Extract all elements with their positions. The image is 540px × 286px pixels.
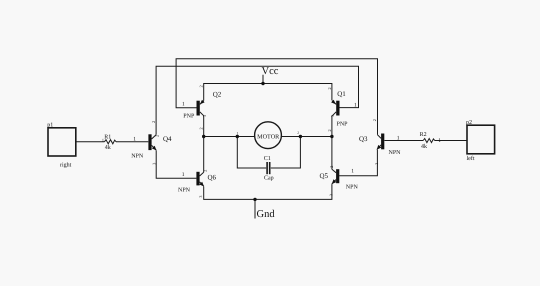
wire Gnd stub <box>254 199 256 218</box>
svg-text:2: 2 <box>198 85 203 87</box>
svg-text:R2: R2 <box>420 132 427 138</box>
svg-text:right: right <box>60 161 72 168</box>
svg-text:2: 2 <box>327 87 332 89</box>
svg-text:Cap: Cap <box>264 176 274 182</box>
port p2 box <box>467 125 495 154</box>
junction dot cap left tap <box>236 135 239 138</box>
svg-text:PNP: PNP <box>183 114 195 120</box>
transistor Q2 (PNP) <box>197 100 205 116</box>
wire Vcc rail <box>204 84 332 101</box>
svg-text:NPN: NPN <box>389 150 402 156</box>
svg-text:left: left <box>467 155 475 162</box>
transistor Q1 (PNP) <box>331 100 339 116</box>
svg-text:Q4: Q4 <box>163 135 172 143</box>
svg-text:Q1: Q1 <box>337 90 346 98</box>
wire Q4 emitter to Q6 base <box>156 151 196 179</box>
svg-text:Gnd: Gnd <box>257 209 276 220</box>
svg-text:Q2: Q2 <box>213 91 222 99</box>
capacitor C1 plates <box>267 162 270 174</box>
resistor R2 <box>423 139 435 143</box>
port p1 box <box>48 128 76 156</box>
motor M1 circle <box>255 122 282 149</box>
wire Vcc stub <box>262 75 264 84</box>
svg-text:2: 2 <box>297 131 299 135</box>
svg-text:2: 2 <box>198 127 203 129</box>
svg-text:Vcc: Vcc <box>262 66 279 77</box>
svg-text:4k: 4k <box>421 143 427 150</box>
wire R2 to p2 <box>435 140 467 142</box>
svg-text:2: 2 <box>151 121 156 123</box>
svg-text:3: 3 <box>198 196 203 198</box>
svg-text:3: 3 <box>152 163 157 165</box>
svg-text:R1: R1 <box>104 135 111 141</box>
svg-text:3: 3 <box>329 194 334 196</box>
wire loop B: Q4 collector to Q1 base <box>156 66 358 135</box>
svg-text:2: 2 <box>372 119 377 121</box>
svg-text:PNP: PNP <box>337 122 349 128</box>
svg-text:Q3: Q3 <box>359 135 368 143</box>
junction dot motor line / Q2-Q6 <box>202 135 205 138</box>
svg-text:2: 2 <box>327 129 332 131</box>
svg-text:1: 1 <box>354 103 357 109</box>
transistor Q5 (NPN) <box>332 169 340 184</box>
resistor R1 <box>105 140 117 144</box>
svg-text:3: 3 <box>330 115 335 117</box>
svg-text:3: 3 <box>202 115 207 117</box>
transistor Q3 (NPN) <box>377 134 385 150</box>
wire Q6 collector riser <box>203 137 205 173</box>
svg-text:1: 1 <box>351 169 354 175</box>
wire R1 to Q4 base <box>116 141 148 143</box>
svg-text:2: 2 <box>329 166 334 168</box>
svg-text:2: 2 <box>155 135 160 137</box>
svg-text:Q5: Q5 <box>320 172 329 180</box>
svg-text:1: 1 <box>397 135 400 141</box>
wire Gnd rail <box>204 184 332 199</box>
svg-text:4k: 4k <box>105 144 111 151</box>
svg-text:1: 1 <box>133 136 136 142</box>
junction dot Vcc <box>261 82 264 85</box>
wire Q5 collector riser <box>331 137 333 170</box>
svg-text:1: 1 <box>182 101 185 107</box>
svg-text:NPN: NPN <box>131 153 144 159</box>
junction dot motor line / Q1-Q5 <box>330 135 333 138</box>
wire capacitor left branch <box>237 137 266 169</box>
wire loop A: Q2 base to Q3 collector <box>176 59 377 135</box>
wire p1 to R1 <box>76 141 105 143</box>
junction dot Gnd <box>253 198 256 201</box>
svg-text:p2: p2 <box>466 120 472 126</box>
svg-text:3: 3 <box>374 163 379 165</box>
svg-text:1: 1 <box>102 137 104 142</box>
svg-text:MOTOR: MOTOR <box>257 133 280 140</box>
svg-text:1: 1 <box>237 132 239 136</box>
svg-text:C1: C1 <box>264 156 271 162</box>
wire Q3 emitter to Q5 base <box>339 150 377 176</box>
transistor Q4 (NPN) <box>148 134 156 150</box>
wire motor line right <box>282 116 332 137</box>
junction dot cap right tap <box>299 135 302 138</box>
wire capacitor right branch <box>271 137 301 169</box>
svg-text:2: 2 <box>202 170 207 172</box>
svg-text:NPN: NPN <box>346 184 359 190</box>
wire motor line left <box>204 116 255 137</box>
svg-text:1: 1 <box>182 172 185 178</box>
svg-text:p1: p1 <box>47 122 53 128</box>
transistor Q6 (NPN) <box>196 172 204 187</box>
svg-text:Q6: Q6 <box>208 174 217 182</box>
svg-text:1: 1 <box>438 138 441 144</box>
wire Q3 base to R2 <box>384 140 423 142</box>
svg-text:NPN: NPN <box>178 187 191 193</box>
